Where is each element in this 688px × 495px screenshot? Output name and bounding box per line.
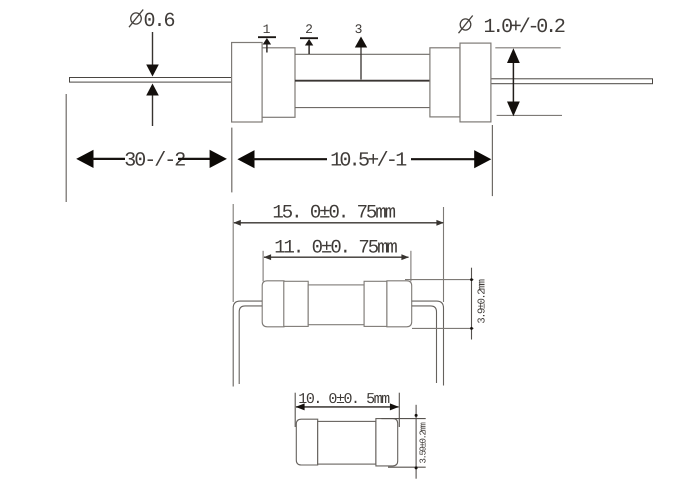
extension line right (15.0 dim, middle view) [443, 207, 445, 302]
fuse body top line (top view) [295, 53, 430, 55]
extension line top (3.59 dim) [381, 418, 425, 420]
marker 2 tack [300, 37, 318, 39]
svg-text:2: 2 [305, 22, 313, 37]
svg-text:1.0+/-0.2: 1.0+/-0.2 [484, 16, 565, 39]
right bent lead outer line (middle view) [412, 301, 444, 385]
extension line bottom (3.9 dim) [412, 327, 474, 329]
arrow down to lead (0.6 dim) [152, 32, 154, 66]
extension line left (15.0 dim, middle view) [232, 204, 234, 302]
dimension line 15.0 [234, 222, 443, 224]
extension line far left (30 dim) [65, 94, 67, 202]
lead wire left (top view) [70, 78, 232, 83]
svg-text:11. 0±0. 75mm: 11. 0±0. 75mm [274, 236, 397, 258]
fuse element center line (top view) [295, 80, 430, 82]
extension line left (11.0 dim) [262, 251, 264, 281]
diameter symbol for 1.0 [459, 16, 473, 34]
fuse cap right rounded (middle view) [387, 281, 412, 327]
fuse cap right band (middle view) [364, 281, 387, 326]
dimension line vertical (3.9 dim) [471, 268, 473, 340]
svg-text:1: 1 [263, 22, 271, 37]
svg-text:10.5+/-1: 10.5+/-1 [330, 150, 407, 173]
fuse cap left band (middle view) [284, 281, 308, 326]
cap left inner rectangle (top view) [262, 48, 295, 118]
svg-text:10. 0±0. 5mm: 10. 0±0. 5mm [298, 391, 390, 408]
fuse cap left rounded (middle view) [262, 281, 284, 327]
extension line right (11.0 dim) [410, 251, 412, 281]
svg-text:3.9±0.2mm: 3.9±0.2mm [477, 279, 489, 323]
vertical double arrow (cap diameter) [512, 55, 514, 110]
dimension 10.5 left arrow [237, 150, 254, 168]
left bent lead outer line (middle view) [233, 301, 262, 386]
smd cap left rounded (bottom view) [296, 419, 317, 465]
arrow up to lead (0.6 dim) [152, 95, 154, 126]
cap right outer rectangle (top view) [460, 43, 491, 122]
extension line bottom (3.59 dim) [388, 466, 426, 468]
svg-text:3: 3 [355, 22, 363, 37]
svg-text:30-/-2: 30-/-2 [124, 149, 185, 172]
extension line top (3.9 dim) [405, 279, 474, 281]
smd middle body (bottom view) [318, 421, 376, 464]
dimension line 11.0 [264, 256, 409, 258]
extension line right (10.0 dim) [398, 393, 400, 427]
extension line left (10.0 dim) [294, 393, 296, 427]
extension line bottom right of cap [497, 114, 562, 116]
svg-text:3.59±0.2mm: 3.59±0.2mm [419, 422, 429, 463]
svg-text:0.6: 0.6 [144, 10, 175, 33]
extension line below right cap (10.5 dim) [491, 125, 493, 196]
extension line top right of cap [495, 47, 560, 49]
fuse body bottom line (top view) [295, 107, 430, 109]
svg-text:15. 0±0. 75mm: 15. 0±0. 75mm [272, 202, 395, 224]
marker 1 tack [258, 36, 276, 38]
dimension 30-/-2 left arrow [76, 150, 93, 168]
cap right inner rectangle (top view) [430, 48, 460, 117]
dimension line 10.0 [296, 406, 399, 408]
left bent lead inner line (middle view) [239, 306, 262, 384]
smd cap right rounded (bottom view) [376, 419, 398, 466]
right bent lead inner line (middle view) [412, 306, 437, 383]
glass tube (middle view) [308, 285, 364, 325]
cap left outer rectangle (top view) [232, 43, 263, 123]
dimension line vertical (3.59 dim) [415, 405, 417, 479]
diameter symbol for 0.6 [129, 10, 143, 28]
dimension 30-/-2 right arrow [178, 158, 213, 160]
dimension 10.5 right arrow [411, 158, 476, 160]
lead wire right (top view) [491, 79, 653, 84]
extension line below left cap (30/10.5 dims) [231, 128, 233, 193]
marker 3 arrow to center element [355, 37, 367, 48]
